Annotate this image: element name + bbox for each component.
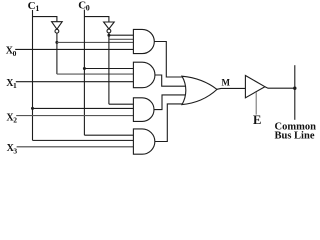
and-gate A1	[133, 29, 154, 53]
node C1 label	[28, 0, 40, 13]
wire X0 input line	[15, 48, 133, 50]
wire enable E	[255, 92, 257, 115]
node M label	[222, 77, 231, 87]
wire C0 branch to inverter 2	[84, 17, 109, 22]
wire C1' vertical rail	[56, 33, 58, 74]
inverter 2 (C0 complement)	[104, 22, 115, 29]
svg-text:Bus Line: Bus Line	[275, 130, 315, 141]
svg-text:E: E	[253, 113, 261, 127]
svg-text:M: M	[222, 77, 231, 87]
wire common bus line	[294, 65, 296, 120]
wire C0 vertical rail	[83, 10, 85, 136]
wire C0' vertical rail	[108, 33, 110, 104]
wire buffer output to bus	[265, 87, 295, 89]
or-gate G1	[182, 76, 217, 104]
svg-text:0: 0	[86, 3, 90, 12]
wire C1 branch to AND3 input 2	[33, 107, 134, 109]
wire X1 input line	[16, 81, 134, 83]
wire C1 to AND4 input 2	[33, 139, 134, 141]
and-gate A4	[133, 129, 154, 154]
node C0 label	[78, 0, 90, 12]
svg-text:3: 3	[13, 146, 17, 155]
node Common Bus Line label	[275, 121, 317, 141]
node junction C0 to AND2 input 1	[83, 67, 86, 70]
node E label	[253, 113, 261, 127]
wire X2 input line	[16, 115, 133, 117]
wire C1' branch to AND1 input 3	[57, 41, 133, 43]
and-gate A2	[133, 62, 155, 87]
svg-text:1: 1	[35, 4, 39, 13]
buffer U1 (tri-state)	[245, 76, 265, 98]
wire AND2 output to OR input 2	[155, 75, 187, 86]
and-gate A3	[133, 98, 154, 122]
inverter 1 (C1 complement)	[52, 22, 63, 30]
wire C1 vertical rail	[32, 10, 34, 140]
wire C0 to AND4 input 1	[84, 134, 133, 136]
svg-text:C: C	[28, 0, 36, 12]
node junction C0' to AND1 input 1	[107, 34, 110, 37]
wire OR output M to buffer	[217, 87, 246, 90]
wire AND1 output to OR input 1	[154, 42, 183, 78]
wire AND3 output to OR input 3	[154, 95, 186, 110]
node X1 label	[6, 78, 17, 90]
wire AND4 output to OR input 4	[155, 104, 183, 142]
node junction C1 to AND3	[31, 107, 34, 110]
node junction on bus	[293, 87, 296, 90]
wire C1 branch to inverter 1	[33, 17, 57, 22]
node junction C1' to AND1	[55, 41, 58, 44]
wire C0' branch to AND1 input 2	[109, 38, 133, 40]
svg-text:2: 2	[13, 116, 17, 125]
svg-text:1: 1	[13, 81, 17, 90]
svg-text:0: 0	[13, 49, 17, 58]
node X3 label	[7, 143, 18, 155]
wire C0 branch to AND2 input 1	[84, 68, 133, 70]
wire C1' to AND2 input 2	[57, 73, 133, 75]
wire X3 input line	[17, 146, 134, 148]
node X0 label	[6, 46, 17, 58]
node X2 label	[6, 112, 17, 124]
wire C0' to AND3 input 1	[109, 103, 133, 105]
wire C0' branch to AND1 input 1	[109, 34, 133, 36]
